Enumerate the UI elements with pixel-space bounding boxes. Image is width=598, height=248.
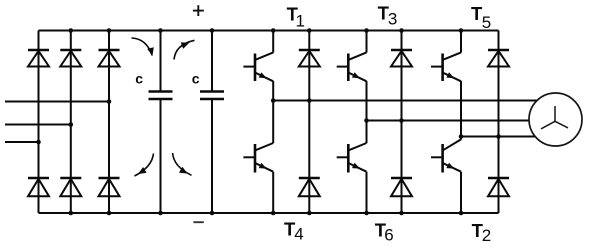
diode (freewheel top, leg T5): [488, 50, 509, 67]
svg-text:3: 3: [388, 10, 397, 29]
label: DC bus -: [193, 221, 203, 223]
ripple current arrow (top-right of C1): [174, 40, 195, 59]
node junction at (38.5,142): [36, 140, 41, 145]
svg-text:4: 4: [294, 225, 303, 244]
wire: freewheel diode leg at x=401.5 vertical: [401, 31, 403, 214]
diode (freewheel bottom, leg T4): [299, 178, 320, 196]
label: DC bus +: [193, 5, 204, 16]
wire: freewheel diode leg at x=309.3 vertical: [308, 31, 310, 214]
node junction at (309.3,213): [307, 211, 312, 216]
diode D6 (rectifier bottom): [99, 178, 120, 196]
node junction at (366.5,30.5): [364, 28, 369, 33]
transistor T6 (lower IGBT/BJT): [337, 121, 367, 214]
diode (freewheel bottom, leg T2): [488, 178, 509, 196]
svg-text:1: 1: [296, 12, 305, 31]
wire: phase V output row: [367, 120, 549, 122]
node junction at (109,30.5): [107, 28, 112, 33]
wire: AC input phase line to leg 2: [5, 124, 71, 126]
node junction at (160.5,213): [158, 211, 163, 216]
motor M (3-phase, wye): [529, 93, 582, 146]
node junction at (109,101.5): [107, 99, 112, 104]
wire: AC input phase line to leg 1: [5, 141, 39, 143]
label: transistor designator T6: [375, 219, 394, 244]
node junction at (366.5,120.5): [364, 118, 369, 123]
label: transistor designator T1: [287, 4, 305, 31]
capacitor C2: [200, 92, 224, 100]
node junction at (461,213): [459, 211, 464, 216]
node junction at (498.5,136.5): [496, 134, 501, 139]
svg-text:c: c: [192, 71, 200, 87]
wire: capacitor C2 upper lead: [211, 31, 213, 92]
transistor T2 (lower IGBT/BJT): [431, 137, 461, 214]
transistor T1 (upper IGBT/BJT): [243, 31, 273, 101]
node junction at (160.5,30.5): [158, 28, 163, 33]
node junction at (461,30.5): [459, 28, 464, 33]
node junction at (401.5,120.5): [399, 118, 404, 123]
wire: capacitor C1 lower lead: [160, 99, 162, 213]
diode D2 (rectifier top): [60, 50, 81, 67]
transistor T5 (upper IGBT/BJT): [431, 31, 461, 137]
ripple current arrow (bottom-left of C1): [135, 154, 154, 177]
diode (freewheel bottom, leg T6): [391, 178, 412, 196]
node junction at (309.3,30.5): [307, 28, 312, 33]
ripple current arrow (bottom-right of C1): [173, 153, 192, 175]
wire: DC+ top bus: [39, 30, 499, 32]
label: transistor designator T5: [471, 3, 491, 32]
wire: phase U output row: [273, 100, 548, 102]
svg-text:6: 6: [384, 225, 393, 244]
transistor T4 (lower IGBT/BJT): [243, 101, 273, 214]
node junction at (70.8,124.5): [69, 122, 74, 127]
svg-text:2: 2: [482, 226, 491, 245]
node junction at (309.3,100.5): [307, 98, 312, 103]
wire: rectifier leg 3 vertical: [108, 31, 110, 214]
node junction at (212,30.5): [210, 28, 215, 33]
node junction at (461,136.5): [459, 134, 464, 139]
diode D1 (rectifier top): [28, 50, 49, 67]
label: transistor designator T4: [284, 219, 304, 244]
ripple current arrow (top-left of C1): [132, 38, 154, 56]
wire: rectifier leg 1 vertical: [38, 31, 40, 214]
transistor T3 (upper IGBT/BJT): [337, 31, 367, 121]
wire: capacitor C1 upper lead: [160, 31, 162, 92]
wire: rectifier leg 2 vertical: [70, 31, 72, 214]
diode (freewheel top, leg T1): [299, 50, 320, 67]
node junction at (366.5,213): [364, 211, 369, 216]
wire: AC input phase line to leg 3: [5, 101, 109, 103]
label: transistor designator T3: [378, 3, 398, 29]
wire: capacitor C2 lower lead: [211, 99, 213, 213]
node junction at (273.2,213): [271, 211, 276, 216]
node junction at (401.5,30.5): [399, 28, 404, 33]
diode (freewheel top, leg T3): [391, 50, 412, 67]
diode D3 (rectifier top): [99, 50, 120, 67]
wire: phase W output row: [461, 136, 548, 138]
wire: freewheel diode leg at x=498.5 vertical: [498, 31, 500, 214]
svg-text:5: 5: [482, 13, 491, 32]
node junction at (401.5,213): [399, 211, 404, 216]
node junction at (109,213): [107, 211, 112, 216]
wire: DC- bottom bus: [39, 212, 499, 214]
diode D4 (rectifier bottom): [28, 178, 49, 196]
node junction at (273.2,30.5): [271, 28, 276, 33]
node junction at (70.8,30.5): [69, 28, 74, 33]
node junction at (212,213): [210, 211, 215, 216]
label: transistor designator T2: [472, 220, 492, 245]
svg-text:c: c: [135, 71, 143, 87]
node junction at (273.2,100.5): [271, 98, 276, 103]
node junction at (70.8,213): [69, 211, 74, 216]
capacitor C1: [149, 92, 173, 100]
diode D5 (rectifier bottom): [60, 178, 81, 196]
